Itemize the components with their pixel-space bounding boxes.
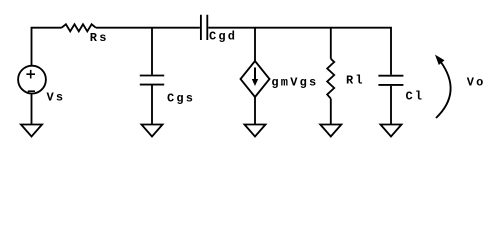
wire Vs to ground [31,94,33,125]
ground (gmVgs) [245,125,266,137]
Vo arc arrow [436,62,451,119]
voltage source Vs circle [18,66,46,94]
capacitor Cgs [140,76,164,85]
wire Cgs to ground [151,86,153,125]
svg-text:gmVgs: gmVgs [271,75,318,89]
svg-text:Cl: Cl [406,89,425,103]
ground (Cl) [381,125,402,137]
svg-text:Cgd: Cgd [209,30,237,44]
Vo arrow head [435,55,445,65]
svg-text:Vs: Vs [47,91,66,105]
wire gmVgs to ground [254,97,256,125]
ground (Cgs) [142,125,163,137]
resistor Rs [62,24,96,31]
wire Cgd right plate to top-right corner, down to Cl [208,28,391,75]
svg-text:Rs: Rs [90,31,109,45]
minus sign [28,90,35,92]
wire top-left corner and left vertical to Vs [32,28,62,66]
wire Rl to ground [330,99,332,125]
dependent current source gmVgs diamond [241,61,270,97]
wire Cl to ground [390,86,392,125]
svg-text:Vo: Vo [467,75,486,89]
capacitor Cl [378,76,403,85]
arrow head inside gmVgs [252,55,445,86]
wire node A down to Cgs [151,28,153,75]
ground (Vs) [21,125,42,137]
wire Rs to Cgd left plate [96,27,200,29]
resistor Rl [327,59,334,99]
wire top to gmVgs diamond [254,28,256,61]
capacitor Cgd [201,15,207,40]
svg-text:Rl: Rl [346,74,365,88]
svg-text:Cgs: Cgs [167,92,195,106]
wire top to Rl [330,28,332,59]
ground (Rl) [320,125,341,137]
plus sign [26,70,35,79]
